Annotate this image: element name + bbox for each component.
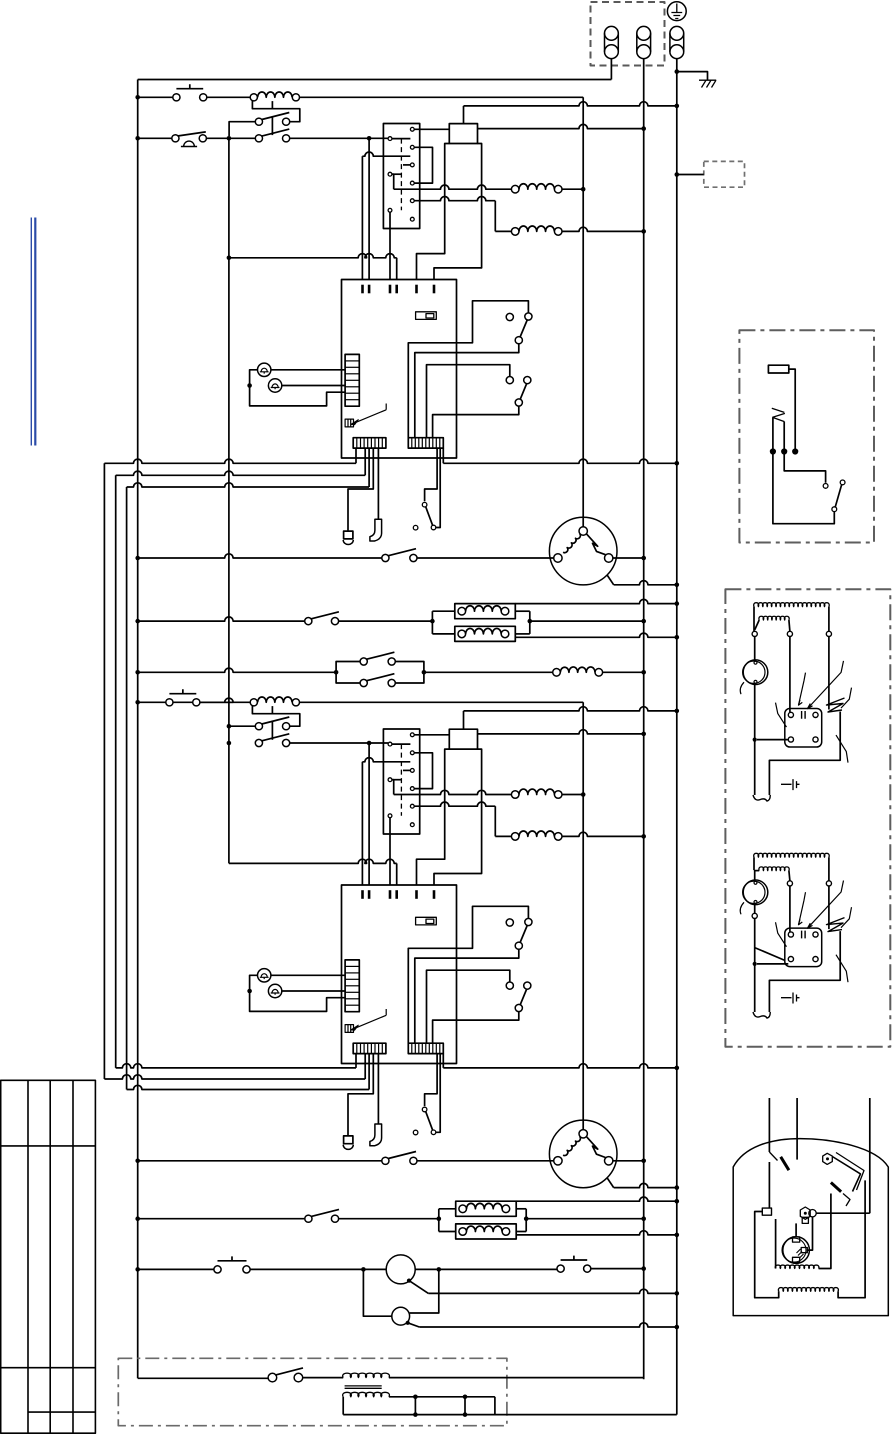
motor detail M2 terminal 3 (826, 881, 831, 886)
wire buzzer to K1 contacts (206, 137, 255, 139)
wire timer row left (138, 1268, 214, 1270)
terminal block dashed enclosure (591, 2, 665, 66)
board A1 deck1 connector B divider 6 (428, 438, 430, 448)
board A1 deck1 trimmer icon (345, 419, 353, 427)
wire S11 to timer (250, 1268, 364, 1270)
cam programmer SP2 contact R4 (410, 787, 414, 791)
motor detail M2 governor lead (754, 905, 756, 914)
junction programmer2 feed tap (367, 741, 372, 746)
board A2 deck2 side connector divider 7 (345, 1004, 359, 1006)
transformer T3 core (345, 1386, 382, 1388)
housing bolt post (823, 1153, 833, 1164)
drive motor M1 deck1 terminal right (605, 554, 613, 562)
wire motor M1 to N bus (613, 557, 644, 559)
wire deck2 pressure switch S4 feed (408, 906, 528, 1043)
wire suppressor tap (677, 174, 704, 176)
wire R3 to deck1 bus (562, 188, 583, 190)
drive motor M2 deck2 winding (563, 1136, 580, 1155)
drive motor M2 deck2 PTC element (587, 1137, 606, 1158)
detail box 1 border (thermostat) (739, 330, 874, 542)
junction M1 on N bus (641, 556, 646, 561)
motor detail M1 leader to box (836, 735, 848, 763)
motor detail M2 start winding (754, 870, 759, 872)
wire deck1 connector pin3 to row3 (368, 448, 370, 487)
motor detail M2 governor feed (754, 871, 756, 880)
junction L bus motor row deck2 (135, 1159, 140, 1164)
chassis ground symbol (699, 80, 716, 87)
wire lamp H2 A1 deck1 (282, 385, 345, 387)
housing lead-in wire 3 (869, 1098, 871, 1213)
cam programmer SP2 contact R1 (410, 733, 414, 737)
wire R4 to N bus (562, 227, 644, 231)
cam programmer SP1 contact L2 (388, 172, 392, 176)
motor detail M2 leader to contact A (808, 881, 844, 929)
motor detail M1 loop to break (769, 712, 840, 796)
junction R3 on deck1 bus (581, 187, 586, 192)
motor detail M1 switch box (785, 709, 822, 748)
wire harness row3 deck2 (127, 1085, 370, 1089)
wire terminal N drop (643, 59, 645, 129)
wire timer row to push button S12 (439, 1268, 557, 1270)
board A1 deck1 relay box (416, 312, 437, 320)
wire S8 to relay K2 coil (200, 701, 251, 703)
junction K2 upper on aux bus (227, 724, 232, 729)
wire SP1 to T1 (414, 128, 449, 130)
wire SP2-L2 to heater1 deck2 (392, 780, 394, 795)
housing contact blade 2 (831, 1183, 841, 1192)
wire programmer2 tap to board pin2 (368, 743, 370, 885)
junction secondary tap2 bottom (463, 1412, 468, 1417)
rotor hatch marks (797, 1249, 804, 1258)
wire M3 wiper row (409, 1281, 428, 1294)
board A2 deck2 pin 2 (368, 890, 371, 899)
drive motor M2 deck2 housing (549, 1120, 617, 1188)
wire deck2 start row (138, 698, 233, 702)
thermostat heater resistor (768, 365, 788, 373)
housing lead-in wire 2 (796, 1098, 798, 1160)
motor detail M2 lead break squiggle (753, 1012, 770, 1018)
wire SP1-R5 to heater2 deck1 (414, 197, 495, 201)
drive motor M1 deck1 PTC element (587, 534, 606, 555)
board A2 deck2 side connector divider 3 (345, 978, 359, 980)
relay K1 contact upper (255, 118, 262, 125)
board A1 deck1 connector B divider 8 (435, 438, 437, 448)
wire T2 left rail to board (417, 749, 450, 885)
board A2 deck2 side connector divider 1 (345, 965, 359, 967)
junction K1 hold circuit (227, 136, 232, 141)
junction M4 wiper on PE bus (675, 1325, 680, 1330)
motor detail M2 leader to box (836, 955, 848, 983)
wire S12 to N bus (591, 1268, 644, 1270)
detail housing outline (pump motor) (733, 1139, 888, 1316)
junction M2 earth (675, 1185, 680, 1190)
drive motor M1 deck1 terminal top (579, 527, 587, 535)
wire harness row1 deck2 right (443, 1064, 677, 1068)
thermostat contact common (832, 507, 837, 512)
lamp H2 A1 deck1 (268, 379, 281, 392)
legend table partial row line (28, 1411, 95, 1413)
board A2 deck2 connector A divider 1 (356, 1043, 358, 1053)
wire M3 output (415, 1268, 439, 1270)
housing contact blade 1 (781, 1157, 789, 1170)
drive motor M2 deck2 terminal right (605, 1157, 613, 1165)
wire aux coil right (819, 1194, 831, 1269)
relay K2 actuator link (271, 721, 273, 740)
wire T1 left rail to board (417, 144, 450, 280)
motor detail M2 switch box (785, 928, 822, 967)
motor detail M2 leader to governor (740, 902, 744, 914)
junction K1 aux to board (227, 255, 232, 260)
junction deck1 sheath earth lower (675, 635, 680, 640)
wire deck2 S5 feed (427, 970, 510, 1043)
wire timer aux drop left (363, 1269, 391, 1316)
wire M3 feed (363, 1268, 386, 1270)
wire S7 to heaters deck1 (339, 620, 433, 622)
wire deck2 S4 common return (415, 949, 519, 1043)
board A2 deck2 trimmer icon (345, 1025, 353, 1033)
NTC temperature probe deck2 (344, 1136, 353, 1144)
pump motor rotor (783, 1237, 810, 1264)
wire door coil to N bus (603, 671, 644, 673)
wire harness row1 deck1 left (104, 459, 356, 463)
board A1 deck1 connector A divider 7 (378, 438, 380, 448)
board A2 deck2 connector B divider 2 (414, 1043, 416, 1053)
heater coil R6 deck2 (511, 833, 519, 841)
cam programmer SP1 body (383, 124, 419, 229)
transformer box T1 deck1 (449, 124, 477, 144)
terminal pin PE (670, 26, 684, 40)
pressure switch S5 deck2 (506, 982, 513, 989)
legend table column lines (28, 1080, 73, 1433)
heater coil R4 deck1 (511, 228, 519, 236)
thermostat contact fixed (823, 484, 828, 489)
heater switch S10 deck2 (305, 1215, 312, 1222)
transformer T3 secondary (343, 1392, 390, 1397)
motor detail M2 wire terminal2 to box (789, 886, 791, 932)
motor detail M2 main winding (753, 857, 755, 870)
detail box 2 border (motor views) (725, 589, 890, 1046)
wire motor M2 to N bus (613, 1160, 644, 1162)
junction T2 on PE bus (675, 709, 680, 714)
junction programmer feed tap (367, 136, 372, 141)
motor detail M2 loop to break (769, 931, 840, 1012)
wire terminal PE drop (676, 59, 678, 72)
thermostat bimetal element (772, 408, 785, 421)
motor detail M1 leader to zigzag (841, 688, 852, 709)
wire SP2-R5 to heater2 deck2 (414, 802, 495, 806)
junction deck2 sheath earth upper (675, 1199, 680, 1204)
cam programmer SP1 inner links (392, 138, 411, 140)
wire secondary tap1 link (414, 1397, 416, 1415)
cam programmer SP1 contact R2 (410, 145, 414, 149)
heater coil R3 deck1 (511, 185, 519, 193)
junction lamp common A2 deck2 (247, 989, 252, 994)
junction S12 on N bus (641, 1266, 646, 1271)
junction M2 on N bus (641, 1159, 646, 1164)
relay K2 coil (250, 699, 257, 706)
motor detail M2 capacitor symbol (781, 993, 800, 1004)
motor terminal ring (809, 1210, 816, 1217)
junction K2 lower on aux bus (227, 741, 232, 746)
interlock contact pair lower (336, 672, 360, 683)
heating element deck2 R2 (459, 1228, 467, 1236)
wire R6 to N bus (562, 832, 644, 836)
lamp H2 A2 deck2 (268, 984, 281, 997)
board A1 deck1 side connector divider 4 (345, 379, 359, 381)
cam programmer SP1 contact R3 (410, 163, 414, 167)
board A1 deck1 side connector divider 3 (345, 373, 359, 375)
pressure hose symbol deck2 (370, 1124, 382, 1146)
board A2 deck2 bottom connector A (353, 1043, 386, 1053)
timer cam motor M4 (392, 1307, 410, 1325)
board A1 deck1 connector A divider 3 (363, 438, 365, 448)
motor detail M2 governor to junction (754, 919, 756, 1013)
cam programmer SP1 contact L1 (388, 137, 392, 141)
board A2 deck2 pin 3 (389, 890, 392, 899)
drive motor M1 deck1 winding (563, 534, 580, 553)
wire deck2 NTC probe lead (348, 1054, 373, 1136)
interlock switch deck2 (422, 1107, 427, 1112)
junction deck1 heater right (528, 619, 533, 624)
wire secondary tap2 link (464, 1397, 466, 1415)
motor detail M1 terminal 3 (826, 631, 831, 636)
board A1 deck1 connector B divider 1 (411, 438, 413, 448)
board A2 deck2 connector A divider 4 (367, 1043, 369, 1053)
motor detail M1 terminal 2 (787, 631, 792, 636)
board A2 deck2 pin 1 (361, 890, 364, 899)
junction secondary tap2 top (463, 1395, 468, 1400)
NTC temperature probe deck1 (344, 531, 353, 539)
door lock solenoid Y1 (553, 669, 561, 677)
housing aux coil (775, 1265, 819, 1268)
wire heater row deck2 (138, 1218, 305, 1220)
junction deck1 heater left (430, 619, 435, 624)
junction deck2 heater on N bus (641, 1216, 646, 1221)
wire K1 upper contact feed (229, 122, 255, 136)
wire deck1 S5 common return (433, 406, 519, 438)
board A2 deck2 bottom connector B (408, 1043, 443, 1053)
motor detail M2 contact bars (802, 931, 806, 939)
heater switch S7 deck1 (305, 618, 312, 625)
control board A1 deck1 outline (342, 280, 457, 459)
board A1 deck1 connector A divider 8 (381, 438, 383, 448)
motor detail M1 capacitor symbol (781, 779, 800, 790)
board A1 deck1 side connector divider 2 (345, 366, 359, 368)
wire T3 secondary top (389, 1396, 495, 1398)
wire deck2 heater output (526, 1218, 644, 1220)
wire R5 to deck2 bus (562, 794, 583, 796)
cam programmer SP1 contact R1 (410, 127, 414, 131)
wire harness row3 deck1 (127, 483, 370, 487)
drive motor M2 deck2 terminal top (579, 1130, 587, 1138)
board A1 deck1 connector A divider 6 (374, 438, 376, 448)
bus wire PE vertical (676, 72, 678, 1415)
motor detail M2 centrifugal governor (743, 880, 768, 905)
junction T1 on N bus (641, 126, 646, 131)
wire K1 lower contact to programmer (290, 137, 389, 139)
cam programmer SP1 contact R6 (410, 217, 414, 221)
board A2 deck2 connector B divider 4 (421, 1043, 423, 1053)
junction PE bus option tap (675, 172, 680, 177)
wire to chassis ground (677, 72, 708, 80)
wire deck2 R1 sheath earth (516, 1197, 677, 1201)
board A1 deck1 bottom connector B (408, 438, 443, 448)
heating element deck2 R2 sheath (456, 1224, 517, 1239)
junction secondary tap1 top (413, 1395, 418, 1400)
board A1 deck1 connector B divider 5 (425, 438, 427, 448)
wire deck2 connector pin3 to row3 (368, 1054, 370, 1090)
wire deck1 NTC probe lead (348, 448, 373, 531)
housing contact arm 1 (769, 1152, 777, 1161)
cam programmer SP1 cam shaft dashed (400, 139, 402, 211)
lamp H1 A1 deck1 (258, 363, 271, 376)
cam programmer SP1 contact R4 (410, 181, 414, 185)
lamp H1 A2 deck2 (258, 969, 271, 982)
start push button S8 deck2 (166, 699, 173, 706)
heating element deck1 R1 (458, 607, 466, 615)
board A1 deck1 pin 5 (415, 285, 418, 294)
motor detail M1 start winding (755, 620, 760, 630)
motor detail M2 switch box contacts (788, 932, 793, 937)
drive motor M2 deck2 terminal left (554, 1157, 562, 1165)
junction T2 on N bus (641, 732, 646, 737)
board A1 deck1 pin 2 (368, 285, 371, 294)
wire heater row deck1 (138, 617, 305, 621)
junction secondary tap1 bottom (413, 1412, 418, 1417)
junction L bus deck1 feed (135, 95, 140, 100)
cam programmer SP2 contact R6 (410, 823, 414, 827)
wire deck1 interlock return (436, 448, 440, 527)
board A1 deck1 connector A divider 4 (367, 438, 369, 448)
motor detail M1 governor feed (754, 637, 756, 660)
cam programmer SP2 body (383, 729, 419, 834)
junction L bus motor row deck1 (135, 556, 140, 561)
board A1 deck1 connector B divider 4 (421, 438, 423, 448)
wire deck2 S5 common return (433, 1011, 519, 1043)
wire fuse loop left (755, 1212, 779, 1298)
start push button S1 deck1 (173, 94, 180, 101)
wire housing ring feed (816, 1212, 870, 1214)
harness wire left 3 (126, 487, 128, 1090)
cam programmer SP2 cam shaft dashed (400, 744, 402, 816)
cam programmer SP2 contact L3 (388, 814, 392, 818)
protective-earth symbol (667, 2, 686, 21)
wire deck1 connector pin1 to row1 (355, 448, 357, 463)
deck1 phase bus (582, 97, 584, 527)
wire programmer2 row to board pin1 (362, 758, 410, 762)
wire deck1 comb edge to bus row (442, 448, 444, 463)
wire deck1 door interlock feed (425, 448, 438, 501)
wire terminal L drop (610, 59, 612, 80)
heating element deck2 R1 sheath (456, 1201, 517, 1216)
cam programmer SP2 contact R5 (410, 804, 414, 808)
wire lamp H1 A2 deck2 (271, 974, 345, 976)
cam programmer SP2 contact R2 (410, 751, 414, 755)
board A2 deck2 connector B divider 6 (428, 1043, 430, 1053)
timer M4 wiper contact (406, 1321, 410, 1325)
board A2 deck2 connector A divider 3 (363, 1043, 365, 1053)
junction M1 earth (675, 583, 680, 588)
housing linkage tail (843, 1194, 850, 1207)
pressure hose symbol deck1 (370, 519, 382, 541)
housing fuse link (768, 1162, 770, 1208)
junction deck1 heater on N bus (641, 619, 646, 624)
junction R6 on N bus (641, 834, 646, 839)
board A2 deck2 connector B divider 5 (425, 1043, 427, 1053)
pressure switch S4 deck2 (506, 919, 513, 926)
board A1 deck1 bottom connector A (353, 438, 386, 448)
buzzer switch S2 deck1 (172, 135, 179, 142)
board A2 deck2 pin 4 (395, 890, 398, 899)
housing main coil (778, 1288, 838, 1292)
board A2 deck2 connector B divider 1 (411, 1043, 413, 1053)
pressure switch S5 common deck2 (515, 1004, 522, 1011)
junction L bus deck2 feed (135, 700, 140, 705)
board A1 deck1 pin 1 (361, 285, 364, 294)
wire rotor right to ring (807, 1217, 812, 1250)
harness wire left 1 (103, 463, 105, 1079)
cam programmer SP2 contact L1 (388, 742, 392, 746)
heating element deck2 R1 (459, 1205, 467, 1213)
motor detail M2 leader to zigzag (841, 907, 852, 928)
wire coil to right post (838, 1180, 865, 1297)
board A1 deck1 connector B divider 7 (432, 438, 434, 448)
wire lamp H1 A1 deck1 (271, 369, 345, 371)
wire K2 aux to board pin4 (229, 859, 397, 863)
wire SP1-L2 to heater1 deck1 (392, 174, 394, 189)
motor detail M1 main winding (753, 607, 755, 632)
board A2 deck2 side connector divider 6 (345, 998, 359, 1000)
wire K2 upper contact feed (229, 725, 256, 727)
wire thermostat resistor lead (789, 369, 795, 449)
motor detail M1 lead break squiggle (753, 795, 770, 801)
board A1 deck1 pin 4 (395, 285, 398, 294)
relay K2 contact lower (255, 739, 262, 746)
pressure switch S4 deck1 (506, 313, 513, 320)
terminal pin N (637, 26, 651, 40)
wire deck1 connector pin2 to row2 (364, 448, 366, 475)
wire motor row deck2 (138, 1160, 382, 1162)
wire T2 to N bus (478, 730, 644, 734)
relay K1 actuator link (271, 116, 273, 135)
transformer T3 primary (343, 1373, 390, 1378)
junction interlock pair right (422, 670, 427, 675)
motor switch S9 deck2 (382, 1157, 389, 1164)
wire programmer tap to board pin2 (368, 138, 370, 279)
mains switch S13 (268, 1373, 277, 1382)
wire T1 to N bus (478, 124, 644, 128)
rotor terminal top (793, 1237, 800, 1242)
timer push button S11 (214, 1266, 221, 1273)
junction R4 on N bus (641, 229, 646, 234)
board A2 deck2 side connector divider 4 (345, 985, 359, 987)
board A2 deck2 connector B divider 8 (435, 1043, 437, 1053)
wire K2 coil-to-contact bracket (252, 706, 299, 726)
board A2 deck2 side connector (345, 960, 359, 1012)
wire thermostat contact feed (784, 454, 825, 483)
wire thermostat return (773, 454, 834, 524)
rotor terminal bottom (793, 1257, 800, 1262)
relay K2 contact upper (255, 723, 262, 730)
board A2 deck2 side connector divider 2 (345, 972, 359, 974)
motor detail M1 protector zigzag (828, 637, 830, 710)
wire T2 right rail to board (434, 749, 482, 885)
wire deck1 R2 sheath earth (515, 633, 677, 637)
board A2 deck2 connector A divider 5 (370, 1043, 372, 1053)
wire deck2 pressure hose lead (377, 1054, 379, 1124)
interlock switch deck1 (422, 502, 427, 507)
junction L bus interlock row (135, 670, 140, 675)
